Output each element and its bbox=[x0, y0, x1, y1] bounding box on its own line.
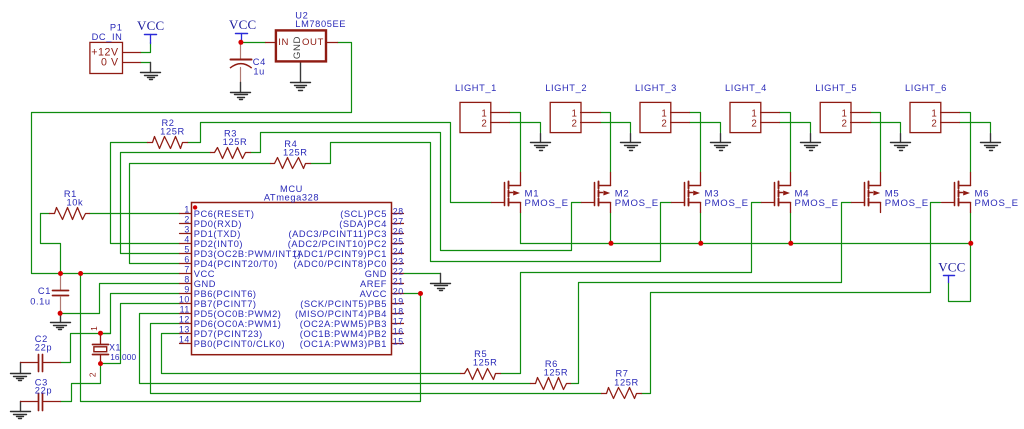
resistor R6 125R bbox=[531, 359, 571, 390]
svg-text:AREF: AREF bbox=[360, 279, 387, 289]
wire C3 to X1 pin2 bbox=[61, 364, 101, 402]
wire PMOS source bus bbox=[521, 243, 971, 245]
IC MCU ATmega328 bbox=[179, 184, 404, 355]
transistor M3 PMOS_E bbox=[672, 173, 749, 213]
wire M source drop 3 bbox=[700, 213, 702, 244]
svg-text:18: 18 bbox=[393, 306, 404, 316]
wire MCU pin11 to R6 bbox=[140, 314, 531, 384]
svg-text:IN: IN bbox=[278, 37, 289, 48]
svg-text:PB0(PCINT0/CLK0): PB0(PCINT0/CLK0) bbox=[194, 339, 285, 349]
svg-text:PMOS_E: PMOS_E bbox=[885, 198, 929, 209]
svg-text:2: 2 bbox=[572, 118, 578, 129]
svg-text:(ADC2/PCINT10)PC2: (ADC2/PCINT10)PC2 bbox=[288, 239, 387, 249]
junction VCC C1 R1 bbox=[58, 271, 63, 276]
svg-text:GND: GND bbox=[365, 269, 387, 279]
wire MCU pin10 to X1 pin2 bbox=[101, 304, 180, 364]
wire R7 to M6 gate bbox=[642, 203, 941, 394]
wire LIGHT_5 pin2 to ground bbox=[871, 123, 901, 133]
resistor R3 125R bbox=[211, 128, 251, 158]
svg-text:LM7805EE: LM7805EE bbox=[295, 19, 346, 29]
capacitor C4 1u bbox=[230, 43, 266, 77]
svg-text:PD7(PCINT23): PD7(PCINT23) bbox=[194, 329, 263, 339]
svg-text:6: 6 bbox=[184, 255, 189, 265]
svg-text:20: 20 bbox=[393, 286, 404, 296]
svg-text:2: 2 bbox=[184, 215, 189, 225]
svg-text:22: 22 bbox=[393, 266, 404, 276]
wire U2 OUT to MCU VCC rail bbox=[32, 43, 352, 274]
wire R6 to M5 gate bbox=[571, 203, 852, 384]
svg-text:2: 2 bbox=[661, 118, 667, 129]
svg-text:11: 11 bbox=[180, 305, 190, 315]
svg-text:PMOS_E: PMOS_E bbox=[975, 198, 1019, 209]
wire M source drop 1 bbox=[520, 213, 522, 244]
svg-text:14: 14 bbox=[179, 335, 190, 345]
wire R1 jog down bbox=[41, 214, 61, 274]
ground at LIGHT_5 bbox=[891, 134, 911, 151]
wire R1 left to VCC rail bbox=[41, 213, 50, 215]
svg-text:(ADC3/PCINT11)PC3: (ADC3/PCINT11)PC3 bbox=[288, 229, 387, 239]
ground at C3 bbox=[11, 402, 31, 419]
svg-text:(ADC0/PCINT8)PC0: (ADC0/PCINT8)PC0 bbox=[293, 259, 387, 269]
svg-text:1: 1 bbox=[184, 205, 189, 215]
svg-text:125R: 125R bbox=[160, 127, 185, 137]
connector LIGHT_4 bbox=[725, 83, 780, 133]
svg-text:26: 26 bbox=[393, 226, 404, 236]
svg-text:PD4(PCINT20/T0): PD4(PCINT20/T0) bbox=[194, 259, 278, 269]
wire M source drop 5 bbox=[970, 213, 972, 244]
connector LIGHT_1 bbox=[455, 83, 510, 133]
svg-text:GND: GND bbox=[194, 279, 216, 289]
power flag VCC right bbox=[938, 259, 965, 282]
svg-text:PD2(INT0): PD2(INT0) bbox=[194, 239, 243, 249]
junction C1 ground bbox=[58, 311, 63, 316]
wire VCC symbol to bus bbox=[949, 244, 971, 302]
svg-text:125R: 125R bbox=[473, 358, 498, 368]
wire MCU pin6 to R4 bbox=[130, 164, 271, 264]
connector LIGHT_6 bbox=[905, 83, 960, 133]
svg-text:LIGHT_5: LIGHT_5 bbox=[815, 83, 857, 93]
svg-text:OUT: OUT bbox=[302, 37, 324, 48]
wire LIGHT_6 pin2 to ground bbox=[960, 123, 991, 133]
wire P1 0V to ground bbox=[141, 62, 151, 64]
svg-text:24: 24 bbox=[393, 246, 404, 256]
svg-text:1u: 1u bbox=[253, 66, 265, 76]
svg-text:PC6(RESET): PC6(RESET) bbox=[194, 209, 255, 219]
svg-text:10k: 10k bbox=[67, 198, 84, 208]
ground at C2 bbox=[11, 363, 31, 381]
svg-text:VCC: VCC bbox=[229, 17, 256, 32]
svg-text:VCC: VCC bbox=[194, 269, 215, 279]
ground at LIGHT_4 bbox=[801, 134, 821, 151]
transistor M6 PMOS_E bbox=[942, 173, 1019, 213]
svg-text:PD1(TXD): PD1(TXD) bbox=[194, 229, 241, 239]
svg-text:PMOS_E: PMOS_E bbox=[705, 198, 749, 209]
svg-text:2: 2 bbox=[88, 372, 98, 377]
wire MCU AVCC to VCC rail bbox=[81, 274, 421, 402]
capacitor C2 22p bbox=[21, 334, 61, 371]
capacitor C3 22p bbox=[21, 378, 61, 411]
junction bus M6 bbox=[968, 241, 973, 246]
wire R3 to M2 gate bbox=[251, 133, 582, 251]
wire MCU pin4 to R2 bbox=[111, 143, 180, 244]
wire LIGHT_3 pin1 to M3 drain bbox=[690, 113, 701, 173]
svg-text:AVCC: AVCC bbox=[360, 289, 387, 299]
wire MCU pin22 GND to ground bbox=[404, 273, 441, 275]
svg-text:22p: 22p bbox=[35, 342, 52, 352]
svg-text:C4: C4 bbox=[253, 57, 266, 67]
ground at LIGHT_6 bbox=[981, 134, 1001, 151]
svg-text:PD5(OC0B:PWM2): PD5(OC0B:PWM2) bbox=[194, 309, 282, 319]
ground at C4 bbox=[231, 68, 251, 100]
svg-text:12: 12 bbox=[179, 315, 190, 325]
svg-text:27: 27 bbox=[393, 216, 404, 226]
svg-text:C1: C1 bbox=[38, 286, 51, 296]
svg-text:3: 3 bbox=[184, 225, 189, 235]
svg-text:PD0(RXD): PD0(RXD) bbox=[194, 219, 242, 229]
svg-text:16.000: 16.000 bbox=[110, 352, 136, 362]
ground at LIGHT_1 bbox=[531, 134, 551, 151]
svg-text:0.1u: 0.1u bbox=[30, 297, 51, 307]
wire R4 to M3 gate bbox=[311, 143, 672, 262]
wire MCU pin5 to R3 bbox=[121, 153, 211, 254]
svg-text:(SCL)PC5: (SCL)PC5 bbox=[340, 209, 387, 219]
svg-text:2: 2 bbox=[751, 118, 757, 129]
ground at U2 bbox=[291, 62, 311, 91]
ground at P1 bbox=[141, 63, 161, 80]
svg-text:2: 2 bbox=[931, 118, 937, 129]
transistor M2 PMOS_E bbox=[582, 173, 659, 213]
svg-text:(MISO/PCINT4)PB4: (MISO/PCINT4)PB4 bbox=[295, 309, 387, 319]
wire M source drop 2 bbox=[610, 213, 612, 244]
svg-text:DC_IN: DC_IN bbox=[92, 32, 123, 42]
svg-text:2: 2 bbox=[481, 118, 487, 129]
svg-text:PD3(OC2B:PWM/INT1): PD3(OC2B:PWM/INT1) bbox=[194, 249, 302, 259]
junction AVCC bbox=[418, 291, 423, 296]
wire LIGHT_2 pin1 to M2 drain bbox=[601, 113, 611, 173]
svg-text:VCC: VCC bbox=[938, 259, 965, 274]
svg-text:7: 7 bbox=[184, 265, 189, 275]
svg-text:1: 1 bbox=[89, 326, 99, 331]
connector LIGHT_5 bbox=[815, 83, 870, 133]
svg-text:LIGHT_2: LIGHT_2 bbox=[545, 83, 587, 93]
svg-text:(SDA)PC4: (SDA)PC4 bbox=[339, 219, 387, 229]
junction VCC at U2 input bbox=[238, 40, 243, 45]
svg-text:125R: 125R bbox=[283, 148, 308, 158]
resistor R2 125R bbox=[148, 118, 188, 149]
svg-text:(OC2A:PWM5)PB3: (OC2A:PWM5)PB3 bbox=[300, 319, 387, 329]
svg-text:ATmega328: ATmega328 bbox=[264, 193, 319, 203]
svg-text:GND: GND bbox=[292, 36, 303, 59]
wire P1 +12V to VCC bbox=[141, 43, 151, 53]
svg-text:5: 5 bbox=[184, 245, 189, 255]
svg-text:25: 25 bbox=[393, 236, 404, 246]
wire MCU pin13 to R5 bbox=[162, 334, 461, 374]
svg-text:125R: 125R bbox=[223, 137, 248, 147]
resistor R1 10k bbox=[50, 189, 90, 220]
ground at LIGHT_2 bbox=[621, 134, 641, 151]
svg-text:28: 28 bbox=[393, 206, 404, 216]
svg-text:PMOS_E: PMOS_E bbox=[795, 198, 839, 209]
svg-text:125R: 125R bbox=[614, 377, 639, 387]
svg-text:15: 15 bbox=[393, 336, 404, 346]
ground at MCU pin22 bbox=[431, 274, 451, 291]
wire C2 to X1 pin1 bbox=[61, 334, 101, 363]
svg-text:LIGHT_1: LIGHT_1 bbox=[455, 83, 497, 93]
wire LIGHT_1 pin2 to ground bbox=[510, 123, 541, 133]
svg-text:VCC: VCC bbox=[137, 18, 164, 33]
svg-text:4: 4 bbox=[184, 235, 189, 245]
svg-text:LIGHT_6: LIGHT_6 bbox=[905, 83, 947, 93]
power flag VCC at P1 bbox=[137, 18, 164, 43]
svg-text:19: 19 bbox=[393, 296, 404, 306]
transistor M4 PMOS_E bbox=[762, 173, 839, 213]
resistor R4 125R bbox=[271, 139, 311, 169]
transistor M5 PMOS_E bbox=[852, 173, 929, 213]
wire LIGHT_4 pin1 to M4 drain bbox=[780, 113, 791, 173]
power flag VCC at U2 input bbox=[229, 17, 256, 42]
ground at LIGHT_3 bbox=[711, 134, 731, 151]
regulator U2 LM7805EE bbox=[266, 10, 347, 61]
wire VCC junction to U2 IN bbox=[241, 42, 266, 44]
wire LIGHT_4 pin2 to ground bbox=[780, 123, 811, 133]
svg-text:LIGHT_4: LIGHT_4 bbox=[725, 83, 767, 93]
svg-text:(ADC1/PCINT9)PC1: (ADC1/PCINT9)PC1 bbox=[293, 249, 387, 259]
svg-text:(OC1B:PWM4)PB2: (OC1B:PWM4)PB2 bbox=[300, 329, 387, 339]
resistor R5 125R bbox=[461, 349, 501, 380]
connector LIGHT_3 bbox=[635, 83, 690, 133]
junction VCC branch bbox=[78, 271, 83, 276]
svg-text:13: 13 bbox=[179, 325, 190, 335]
svg-text:PMOS_E: PMOS_E bbox=[525, 198, 569, 209]
svg-text:9: 9 bbox=[184, 285, 189, 295]
crystal X1 16.000 bbox=[88, 326, 137, 377]
junction X1 pin1 bbox=[98, 331, 103, 336]
capacitor C1 0.1u bbox=[30, 274, 68, 314]
junction bus M3 bbox=[698, 241, 703, 246]
wire LIGHT_5 pin1 to M5 drain bbox=[871, 113, 881, 173]
wire X1 pin1 to riser bbox=[101, 333, 111, 335]
svg-text:22p: 22p bbox=[35, 386, 52, 396]
svg-text:125R: 125R bbox=[544, 368, 569, 378]
wire LIGHT_1 pin1 to M1 drain bbox=[510, 113, 521, 173]
svg-text:PB6(PCINT6): PB6(PCINT6) bbox=[194, 289, 257, 299]
resistor R7 125R bbox=[602, 369, 642, 399]
svg-text:2: 2 bbox=[842, 118, 848, 129]
wire LIGHT_6 pin1 to M6 drain bbox=[960, 113, 971, 173]
wire R5 to M4 gate bbox=[501, 203, 762, 374]
wire MCU pin9 to X1 pin1 bbox=[101, 294, 180, 334]
wire R2 to M1 gate bbox=[188, 123, 492, 203]
svg-text:8: 8 bbox=[184, 275, 189, 285]
wire LIGHT_3 pin2 to ground bbox=[690, 123, 721, 133]
junction bus M4 bbox=[788, 241, 793, 246]
svg-text:(OC1A:PWM3)PB1: (OC1A:PWM3)PB1 bbox=[300, 339, 387, 349]
connector P1 DC_IN bbox=[90, 23, 141, 74]
svg-text:10: 10 bbox=[179, 295, 190, 305]
transistor M1 PMOS_E bbox=[492, 173, 569, 213]
svg-text:16: 16 bbox=[393, 326, 404, 336]
svg-text:PB7(PCINT7): PB7(PCINT7) bbox=[194, 299, 257, 309]
svg-text:(SCK/PCINT5)PB5: (SCK/PCINT5)PB5 bbox=[300, 299, 387, 309]
svg-text:17: 17 bbox=[393, 316, 404, 326]
junction X1 pin2 bbox=[98, 361, 103, 366]
wire MCU pin8 GND to C1 ground bbox=[61, 284, 180, 314]
wire MCU pin12 to R7 bbox=[151, 324, 602, 394]
wire LIGHT_2 pin2 to ground bbox=[601, 123, 631, 133]
svg-text:PMOS_E: PMOS_E bbox=[615, 198, 659, 209]
svg-text:PD6(OC0A:PWM1): PD6(OC0A:PWM1) bbox=[194, 319, 282, 329]
wire M source drop 4 bbox=[790, 213, 792, 244]
junction bus M2 bbox=[609, 241, 614, 246]
svg-text:0 V: 0 V bbox=[101, 57, 119, 69]
wire R1 right to MCU pin1 bbox=[90, 213, 180, 215]
svg-text:23: 23 bbox=[393, 256, 404, 266]
connector LIGHT_2 bbox=[545, 83, 600, 133]
ground at C1 bbox=[51, 314, 71, 330]
svg-text:21: 21 bbox=[393, 276, 404, 286]
svg-text:LIGHT_3: LIGHT_3 bbox=[635, 83, 677, 93]
